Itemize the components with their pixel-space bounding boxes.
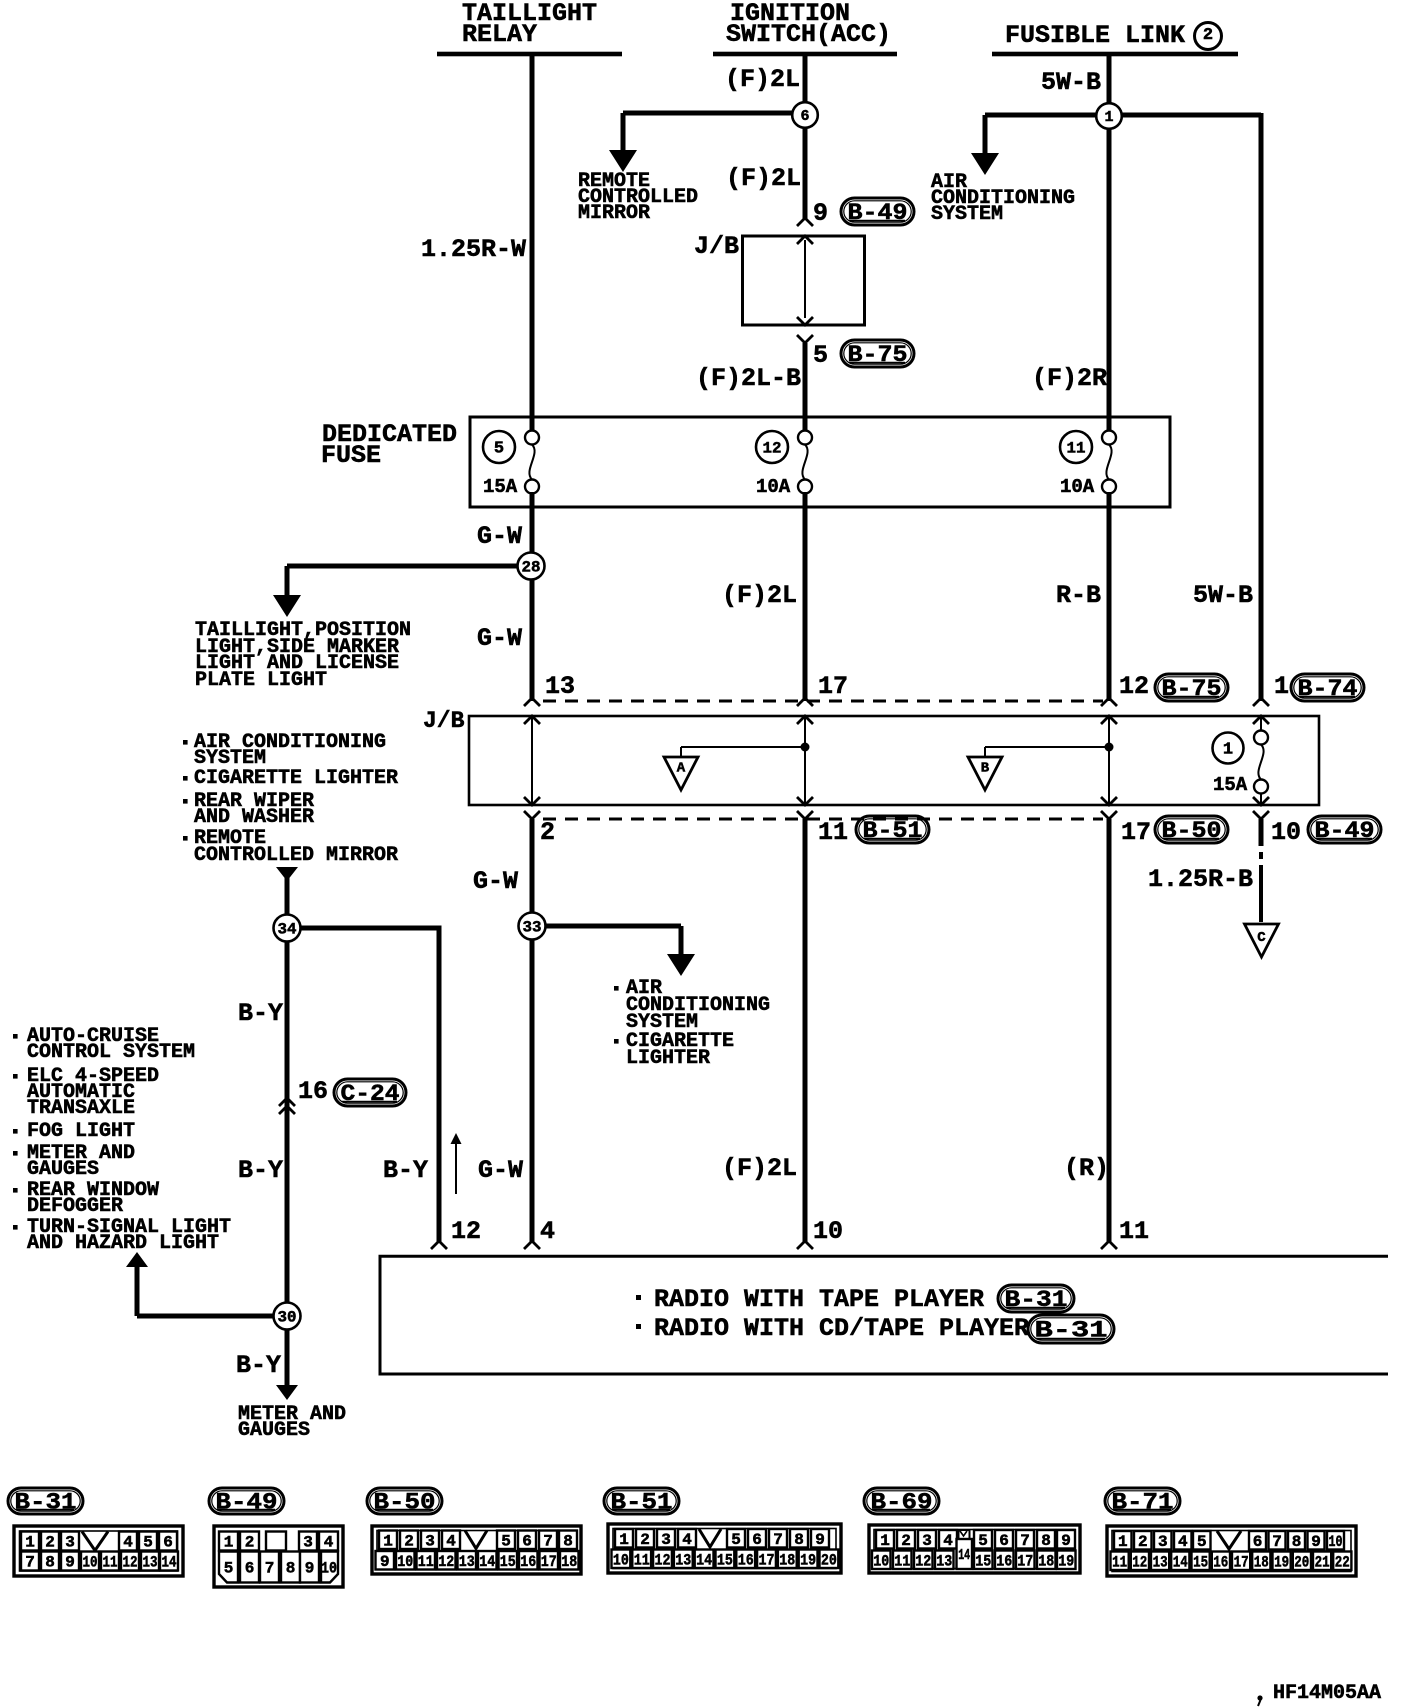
svg-text:1.25R-W: 1.25R-W bbox=[421, 235, 526, 264]
svg-text:15A: 15A bbox=[1213, 774, 1248, 796]
svg-text:9: 9 bbox=[1311, 1533, 1321, 1551]
inline connector C-24 chevrons on wire E bbox=[279, 1098, 295, 1106]
svg-text:14: 14 bbox=[696, 1551, 712, 1569]
fuse 11 element 10A bbox=[1102, 431, 1116, 445]
svg-text:6: 6 bbox=[752, 1531, 762, 1549]
svg-text:18: 18 bbox=[779, 1551, 795, 1569]
connector pinout B-71 (22-pin) bbox=[1107, 1526, 1356, 1576]
connector pinout B-69 (19-pin) bbox=[869, 1525, 1080, 1573]
svg-text:5: 5 bbox=[1197, 1533, 1207, 1551]
wire A1: taillight relay feed 1.25R-W (vertical) bbox=[530, 54, 535, 432]
svg-text:MIRROR: MIRROR bbox=[578, 202, 650, 225]
wire B5: ignition wire (F)2L-B to dedicated fuse bbox=[803, 343, 808, 432]
svg-text:17: 17 bbox=[1234, 1553, 1249, 1571]
wire A chevron into radio bbox=[524, 1241, 540, 1249]
wire F: from junction 34 to radio pin 12 bbox=[300, 926, 442, 931]
svg-text:SWITCH(ACC): SWITCH(ACC) bbox=[726, 20, 891, 49]
svg-text:3: 3 bbox=[303, 1534, 313, 1552]
svg-text:2: 2 bbox=[1138, 1533, 1148, 1551]
svg-text:14: 14 bbox=[162, 1554, 177, 1572]
svg-text:17: 17 bbox=[1121, 818, 1151, 847]
svg-text:B: B bbox=[981, 761, 990, 777]
svg-text:B-49: B-49 bbox=[848, 200, 908, 226]
svg-text:CIGARETTE LIGHTER: CIGARETTE LIGHTER bbox=[194, 767, 398, 790]
connector ref B-49 (at J/B entry) bbox=[841, 198, 914, 225]
svg-text:5W-B: 5W-B bbox=[1041, 68, 1101, 97]
svg-text:11: 11 bbox=[103, 1554, 118, 1572]
dashed bus line (bottom of J/B) bbox=[543, 818, 1103, 821]
junction 28 (splice) bbox=[518, 553, 545, 580]
svg-text:6: 6 bbox=[245, 1560, 255, 1578]
svg-text:17: 17 bbox=[759, 1551, 775, 1569]
svg-text:11: 11 bbox=[634, 1551, 650, 1569]
svg-text:C-24: C-24 bbox=[341, 1081, 400, 1107]
svg-text:2: 2 bbox=[404, 1532, 414, 1550]
connector label B-71 bbox=[1105, 1488, 1180, 1514]
svg-text:7: 7 bbox=[1020, 1532, 1030, 1550]
junction 30 (splice) bbox=[274, 1303, 301, 1330]
svg-text:19: 19 bbox=[1058, 1552, 1074, 1570]
svg-text:1: 1 bbox=[880, 1532, 890, 1550]
wire B chevrons entering J/B bbox=[797, 698, 813, 706]
fuse 5 circle id bbox=[483, 431, 515, 463]
svg-text:20: 20 bbox=[821, 1551, 837, 1569]
svg-text:4: 4 bbox=[682, 1531, 692, 1549]
svg-text:11: 11 bbox=[894, 1552, 910, 1570]
wire D chevrons exiting J/B bbox=[1253, 797, 1269, 805]
wire C4: (R) down to radio bbox=[1107, 819, 1112, 1242]
svg-text:RADIO WITH CD/TAPE PLAYER: RADIO WITH CD/TAPE PLAYER bbox=[654, 1314, 1029, 1343]
connector label B-50 bbox=[367, 1488, 442, 1514]
node on ignition wire in J/B bbox=[801, 743, 810, 752]
svg-text:10A: 10A bbox=[1060, 476, 1095, 498]
svg-text:B-71: B-71 bbox=[1112, 1489, 1174, 1515]
svg-text:1: 1 bbox=[619, 1531, 629, 1549]
dashed bus line (top of J/B) bbox=[543, 700, 1103, 703]
wire C segment R-B from fuse 11 to J/B bbox=[1107, 492, 1112, 701]
svg-text:(F)2R: (F)2R bbox=[1032, 364, 1107, 393]
svg-text:SYSTEM: SYSTEM bbox=[931, 203, 1003, 226]
wire B segment (F)2L from fuse 12 to J/B bbox=[803, 492, 808, 701]
svg-text:1: 1 bbox=[1118, 1533, 1128, 1551]
svg-text:12: 12 bbox=[1132, 1553, 1147, 1571]
svg-text:12: 12 bbox=[438, 1553, 454, 1571]
node on R-B wire in J/B bbox=[1105, 743, 1114, 752]
svg-text:7: 7 bbox=[25, 1554, 35, 1572]
svg-text:(F)2L: (F)2L bbox=[725, 65, 800, 94]
svg-text:B-50: B-50 bbox=[374, 1489, 436, 1515]
svg-text:12: 12 bbox=[451, 1217, 481, 1246]
svg-text:6: 6 bbox=[163, 1534, 173, 1552]
svg-text:15: 15 bbox=[717, 1551, 733, 1569]
svg-text:10: 10 bbox=[873, 1552, 889, 1570]
svg-text:B-75: B-75 bbox=[1162, 676, 1222, 702]
wire E2: arrow to meter and gauges bbox=[276, 1385, 298, 1400]
wire C1: fusible link feed 5W-B (vertical) bbox=[1107, 54, 1112, 432]
svg-text:1: 1 bbox=[25, 1534, 35, 1552]
svg-text:18: 18 bbox=[1038, 1552, 1054, 1570]
svg-text:5: 5 bbox=[143, 1534, 153, 1552]
svg-text:B-50: B-50 bbox=[1162, 818, 1222, 844]
svg-text:21: 21 bbox=[1315, 1553, 1330, 1571]
svg-text:15A: 15A bbox=[483, 476, 518, 498]
svg-text:13: 13 bbox=[143, 1554, 158, 1572]
wire B3: thin wire through small J/B bbox=[804, 240, 806, 318]
fuse 12 circle id bbox=[756, 431, 788, 463]
svg-text:6: 6 bbox=[1253, 1533, 1263, 1551]
svg-text:10: 10 bbox=[321, 1560, 337, 1578]
wire C chevrons exiting J/B bbox=[1101, 797, 1117, 805]
svg-text:11: 11 bbox=[1112, 1553, 1127, 1571]
fuse 12 element 10A bbox=[798, 431, 812, 445]
svg-text:10: 10 bbox=[813, 1217, 843, 1246]
svg-text:AND HAZARD LIGHT: AND HAZARD LIGHT bbox=[27, 1232, 219, 1255]
svg-text:FUSE: FUSE bbox=[321, 441, 381, 470]
svg-text:3: 3 bbox=[425, 1532, 435, 1550]
svg-text:10: 10 bbox=[397, 1553, 413, 1571]
svg-text:12: 12 bbox=[655, 1551, 671, 1569]
svg-text:5W-B: 5W-B bbox=[1193, 581, 1253, 610]
svg-text:10: 10 bbox=[83, 1554, 98, 1572]
wire B6: thin through J/B bbox=[804, 716, 806, 805]
wire B chevrons exiting J/B bbox=[797, 797, 813, 805]
svg-text:5: 5 bbox=[731, 1531, 741, 1549]
svg-text:2: 2 bbox=[1203, 26, 1213, 45]
connector symbol C (triangle) bbox=[1245, 924, 1279, 957]
wire D1: branch from junction 1 to 5W-B drop (horizontal+vertical) bbox=[1122, 113, 1261, 118]
junction 34 (splice) bbox=[274, 915, 301, 942]
svg-text:5: 5 bbox=[224, 1560, 234, 1578]
svg-text:B-31: B-31 bbox=[1035, 1317, 1108, 1343]
svg-text:11: 11 bbox=[418, 1553, 434, 1571]
svg-text:B-74: B-74 bbox=[1298, 676, 1358, 702]
label RADIO WITH TAPE PLAYER + ref B-31 bbox=[636, 1295, 641, 1300]
svg-text:LIGHTER: LIGHTER bbox=[626, 1047, 710, 1070]
wire C3: thin through J/B bbox=[1108, 716, 1110, 805]
svg-text:G-W: G-W bbox=[473, 867, 518, 896]
wire A4: G-W down to radio bbox=[530, 819, 535, 1242]
svg-text:1: 1 bbox=[383, 1532, 393, 1550]
svg-text:20: 20 bbox=[1294, 1553, 1309, 1571]
svg-text:(F)2L-B: (F)2L-B bbox=[696, 364, 801, 393]
dedicated fuse block box bbox=[470, 417, 1170, 507]
svg-text:4: 4 bbox=[446, 1532, 456, 1550]
svg-text:33: 33 bbox=[523, 919, 542, 937]
svg-text:17: 17 bbox=[1017, 1552, 1033, 1570]
wire B7: (F)2L down to radio bbox=[803, 819, 808, 1242]
svg-text:B-51: B-51 bbox=[863, 818, 923, 844]
svg-text:4: 4 bbox=[1178, 1533, 1188, 1551]
svg-text:B-51: B-51 bbox=[611, 1489, 673, 1515]
svg-text:15: 15 bbox=[1193, 1553, 1208, 1571]
svg-text:9: 9 bbox=[380, 1553, 390, 1571]
wire B2: chevron pair entering J/B bbox=[797, 218, 813, 226]
svg-text:G-W: G-W bbox=[477, 522, 522, 551]
ground/triangle symbol A bbox=[664, 757, 698, 790]
svg-text:2: 2 bbox=[901, 1532, 911, 1550]
svg-text:(F)2L: (F)2L bbox=[722, 581, 797, 610]
svg-text:28: 28 bbox=[522, 559, 541, 577]
svg-text:B-Y: B-Y bbox=[383, 1156, 428, 1185]
connector label B-69 bbox=[864, 1488, 939, 1514]
svg-text:4: 4 bbox=[540, 1217, 555, 1246]
wire C chevron into radio bbox=[1101, 1241, 1117, 1249]
svg-text:6: 6 bbox=[999, 1532, 1009, 1550]
svg-text:14: 14 bbox=[1173, 1553, 1188, 1571]
svg-text:11: 11 bbox=[818, 818, 848, 847]
svg-text:CONTROL SYSTEM: CONTROL SYSTEM bbox=[27, 1041, 195, 1064]
svg-text:3: 3 bbox=[661, 1531, 671, 1549]
fuse 1 element (in J/B) bbox=[1254, 731, 1268, 745]
svg-text:B-75: B-75 bbox=[848, 342, 908, 368]
svg-text:8: 8 bbox=[563, 1532, 573, 1550]
wire E1: from remote controlled mirror arrow down bbox=[276, 867, 298, 881]
wire B4: chevron pair exiting J/B bbox=[797, 317, 813, 325]
svg-text:A: A bbox=[677, 761, 686, 777]
fuse 5 element 15A bbox=[525, 431, 539, 445]
connector label B-51 bbox=[604, 1488, 679, 1514]
svg-text:9: 9 bbox=[815, 1531, 825, 1549]
svg-text:16: 16 bbox=[298, 1077, 328, 1106]
svg-text:13: 13 bbox=[1153, 1553, 1168, 1571]
svg-text:1.25R-B: 1.25R-B bbox=[1148, 865, 1253, 894]
svg-text:4: 4 bbox=[324, 1534, 334, 1552]
svg-text:R-B: R-B bbox=[1056, 581, 1101, 610]
junction 33 (splice) bbox=[519, 913, 546, 940]
fuse 1 circle id (in J/B) bbox=[1213, 733, 1244, 764]
component box: RADIO bbox=[380, 1256, 1388, 1374]
svg-text:HF14M05AA: HF14M05AA bbox=[1273, 1682, 1381, 1705]
svg-text:B-49: B-49 bbox=[1315, 818, 1375, 844]
junction 1 (splice) bbox=[1096, 103, 1122, 129]
left destination list (auto-cruise etc.) bbox=[13, 1034, 18, 1039]
svg-text:B-Y: B-Y bbox=[238, 999, 283, 1028]
wire D chevrons entering J/B bbox=[1253, 698, 1269, 706]
svg-text:(F)2L: (F)2L bbox=[726, 164, 801, 193]
svg-text:16: 16 bbox=[520, 1553, 536, 1571]
svg-text:18: 18 bbox=[1254, 1553, 1269, 1571]
svg-text:4: 4 bbox=[943, 1532, 953, 1550]
svg-text:9: 9 bbox=[305, 1560, 315, 1578]
svg-text:15: 15 bbox=[975, 1552, 991, 1570]
svg-text:G-W: G-W bbox=[478, 1156, 523, 1185]
wire D3: thin through J/B (to fuse 1) bbox=[1260, 716, 1262, 732]
svg-text:14: 14 bbox=[958, 1547, 970, 1564]
svg-text:17: 17 bbox=[818, 672, 848, 701]
wire D5: 1.25R-B dash-dot to connector C bbox=[1259, 819, 1264, 846]
svg-text:TRANSAXLE: TRANSAXLE bbox=[27, 1097, 135, 1120]
flow direction arrow (up) bbox=[455, 1140, 457, 1194]
junction 6 (splice) bbox=[792, 102, 818, 128]
wire A chevrons entering J/B bbox=[524, 698, 540, 706]
svg-text:B-31: B-31 bbox=[1005, 1287, 1068, 1313]
svg-text:PLATE LIGHT: PLATE LIGHT bbox=[195, 669, 327, 692]
svg-text:13: 13 bbox=[545, 672, 575, 701]
connector pinout B-50 (18-pin) bbox=[372, 1526, 581, 1574]
svg-text:12: 12 bbox=[1119, 672, 1149, 701]
svg-text:J/B: J/B bbox=[694, 232, 739, 261]
svg-text:11: 11 bbox=[1067, 440, 1086, 458]
svg-text:GAUGES: GAUGES bbox=[27, 1158, 99, 1181]
svg-text:B-69: B-69 bbox=[871, 1489, 933, 1515]
connector label B-31 bbox=[8, 1488, 83, 1514]
svg-text:18: 18 bbox=[561, 1553, 577, 1571]
svg-text:14: 14 bbox=[479, 1553, 495, 1571]
svg-text:10: 10 bbox=[613, 1551, 629, 1569]
svg-text:FOG LIGHT: FOG LIGHT bbox=[27, 1120, 135, 1143]
svg-text:9: 9 bbox=[813, 199, 828, 228]
svg-text:3: 3 bbox=[922, 1532, 932, 1550]
wire H: branch from junction 6 to remote controlled mirror bbox=[623, 111, 792, 116]
wire I: branch from junction 1 to air conditioning system bbox=[985, 113, 1097, 118]
svg-text:8: 8 bbox=[794, 1531, 804, 1549]
svg-text:7: 7 bbox=[773, 1531, 783, 1549]
wire A3: thin through J/B bbox=[531, 716, 533, 805]
svg-text:G-W: G-W bbox=[477, 624, 522, 653]
svg-text:8: 8 bbox=[45, 1554, 55, 1572]
wire A2: G-W from fuse 5 to J/B bbox=[530, 492, 535, 701]
svg-text:16: 16 bbox=[738, 1551, 754, 1569]
svg-text:6: 6 bbox=[800, 108, 809, 125]
svg-text:1: 1 bbox=[1223, 741, 1233, 760]
svg-text:B-Y: B-Y bbox=[236, 1351, 281, 1380]
svg-text:15: 15 bbox=[500, 1553, 516, 1571]
svg-text:2: 2 bbox=[540, 818, 555, 847]
connector ref B-75 (at J/B exit) bbox=[841, 340, 914, 367]
junction block J/B (main box) bbox=[469, 716, 1319, 805]
connector label B-49 bbox=[209, 1488, 284, 1514]
svg-text:2: 2 bbox=[640, 1531, 650, 1549]
svg-text:RADIO WITH TAPE PLAYER: RADIO WITH TAPE PLAYER bbox=[654, 1285, 984, 1314]
wire B1: ignition switch ACC feed (F)2L (vertical) bbox=[803, 54, 808, 220]
svg-text:10: 10 bbox=[1271, 818, 1301, 847]
svg-text:4: 4 bbox=[123, 1534, 133, 1552]
svg-text:RELAY: RELAY bbox=[462, 20, 537, 49]
svg-text:DEFOGGER: DEFOGGER bbox=[27, 1195, 123, 1218]
svg-text:13: 13 bbox=[459, 1553, 475, 1571]
svg-text:8: 8 bbox=[1292, 1533, 1302, 1551]
svg-text:16: 16 bbox=[1213, 1553, 1228, 1571]
svg-text:B-Y: B-Y bbox=[238, 1156, 283, 1185]
svg-text:B-31: B-31 bbox=[15, 1489, 77, 1515]
svg-text:13: 13 bbox=[675, 1551, 691, 1569]
svg-text:16: 16 bbox=[996, 1552, 1012, 1570]
svg-text:(F)2L: (F)2L bbox=[722, 1154, 797, 1183]
svg-text:8: 8 bbox=[286, 1560, 296, 1578]
svg-text:19: 19 bbox=[800, 1551, 816, 1569]
svg-text:2: 2 bbox=[245, 1534, 255, 1552]
junction block J/B (small box at ignition wire) bbox=[743, 236, 865, 325]
svg-text:11: 11 bbox=[1119, 1217, 1149, 1246]
svg-text:10A: 10A bbox=[756, 476, 791, 498]
wire J: branch from junction 33 to A/C + cigarette lighter bbox=[545, 924, 681, 929]
svg-text:GAUGES: GAUGES bbox=[238, 1419, 310, 1442]
wire K: branch from junction 30 up to turn-signal list bbox=[126, 1252, 148, 1267]
destination list AIR CONDITIONING SYSTEM / CIGARETTE LIGHTER bbox=[614, 986, 619, 991]
wire to ground symbol A bbox=[681, 746, 805, 748]
svg-text:5: 5 bbox=[494, 440, 504, 459]
svg-text:8: 8 bbox=[1041, 1532, 1051, 1550]
connector pinout B-31 (14-pin) bbox=[14, 1526, 183, 1576]
svg-text:6: 6 bbox=[522, 1532, 532, 1550]
svg-text:13: 13 bbox=[936, 1552, 952, 1570]
wire B chevron into radio bbox=[797, 1241, 813, 1249]
svg-text:J/B: J/B bbox=[423, 708, 465, 734]
fuse 11 circle id bbox=[1060, 431, 1092, 463]
svg-text:CONTROLLED MIRROR: CONTROLLED MIRROR bbox=[194, 844, 398, 867]
connector pinout B-51 (20-pin) bbox=[608, 1524, 841, 1573]
svg-text:7: 7 bbox=[543, 1532, 553, 1550]
svg-text:19: 19 bbox=[1274, 1553, 1289, 1571]
svg-text:AND WASHER: AND WASHER bbox=[194, 806, 314, 829]
svg-text:5: 5 bbox=[978, 1532, 988, 1550]
svg-text:1: 1 bbox=[1104, 109, 1113, 126]
svg-text:30: 30 bbox=[278, 1309, 297, 1327]
J/B output list (air conditioning, cigarette lighter, rear wiper, remote mirror) bbox=[183, 740, 188, 745]
svg-text:34: 34 bbox=[278, 921, 297, 939]
wire G: branch from junction 28 to taillights bbox=[287, 564, 518, 569]
svg-text:5: 5 bbox=[813, 341, 828, 370]
svg-text:12: 12 bbox=[123, 1554, 138, 1572]
svg-text:FUSIBLE LINK: FUSIBLE LINK bbox=[1005, 21, 1185, 50]
svg-text:7: 7 bbox=[1272, 1533, 1282, 1551]
label RADIO WITH CD/TAPE PLAYER + ref B-31 bbox=[636, 1324, 641, 1329]
svg-text:B-49: B-49 bbox=[216, 1489, 278, 1515]
svg-text:12: 12 bbox=[915, 1552, 931, 1570]
svg-text:2: 2 bbox=[45, 1534, 55, 1552]
stray mark (comma) bbox=[1257, 1695, 1262, 1700]
svg-text:1: 1 bbox=[224, 1534, 234, 1552]
svg-text:1: 1 bbox=[1274, 672, 1289, 701]
wire A chevrons exiting J/B bbox=[524, 797, 540, 805]
svg-text:C: C bbox=[1257, 930, 1266, 946]
svg-text:5: 5 bbox=[501, 1532, 511, 1550]
svg-text:9: 9 bbox=[1061, 1532, 1071, 1550]
svg-text:12: 12 bbox=[763, 440, 782, 458]
svg-text:3: 3 bbox=[1158, 1533, 1168, 1551]
ground/triangle symbol B bbox=[968, 757, 1002, 790]
svg-text:10: 10 bbox=[1329, 1533, 1343, 1551]
wire C chevrons entering J/B bbox=[1101, 698, 1117, 706]
wire to ground symbol B bbox=[985, 746, 1109, 748]
svg-text:17: 17 bbox=[541, 1553, 557, 1571]
svg-text:(R): (R) bbox=[1064, 1154, 1109, 1183]
wire F chevron into radio bbox=[431, 1241, 447, 1249]
svg-text:9: 9 bbox=[65, 1554, 75, 1572]
svg-text:7: 7 bbox=[265, 1560, 275, 1578]
svg-text:22: 22 bbox=[1335, 1553, 1350, 1571]
connector pinout B-49 (10-pin) bbox=[214, 1526, 343, 1587]
svg-text:3: 3 bbox=[65, 1534, 75, 1552]
